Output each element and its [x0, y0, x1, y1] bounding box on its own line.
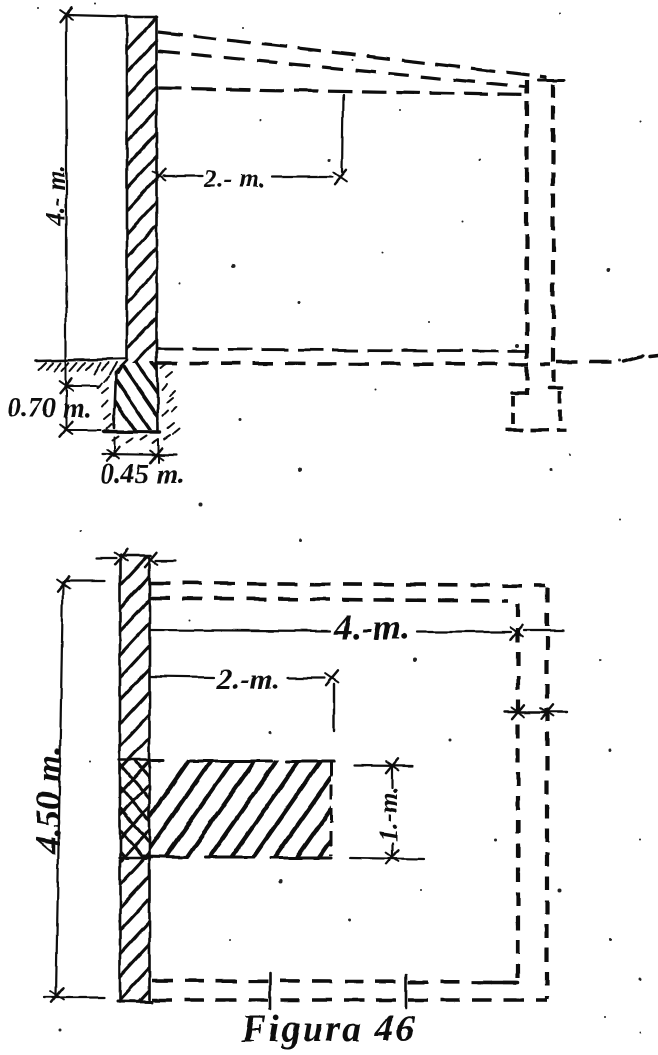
fig2 riser below 2m tick — [333, 684, 335, 731]
fig1 right footing left step — [512, 393, 527, 427]
fig1 0.45 drop lines — [114, 437, 158, 462]
fig1 right footing bottom — [506, 428, 566, 432]
fig1 tick right of 2m — [334, 170, 347, 184]
fig1 soil texture around foundation — [98, 363, 179, 443]
fig1 0.70 ticks and ties — [60, 362, 101, 436]
fig2 right outer dashed vertical — [545, 588, 549, 999]
fig2 wall cross hatch at slab — [117, 738, 152, 890]
fig2 1m vertical line — [391, 768, 393, 855]
fig2 inner vertical bottom ell — [492, 980, 518, 984]
fig1 0.45 ticks — [107, 447, 163, 462]
fig1 wall hatch — [124, 15, 159, 444]
fig1 label 2.- m. — [203, 164, 265, 193]
fig2 1m ties — [350, 766, 424, 860]
fig1 floor dashed line lower — [157, 363, 550, 364]
fig1 right footing right step — [549, 388, 562, 426]
fig2 wall top ticks — [97, 550, 176, 567]
fig1 ground dashes right of right wall — [556, 356, 658, 362]
fig1 2m dimension line right part — [272, 176, 332, 178]
fig2 slab top edge — [152, 759, 334, 763]
fig2 4m dimension line — [150, 630, 563, 632]
fig1 roof dashed line A — [158, 32, 547, 77]
fig2 bottom dashed line upper — [152, 981, 517, 982]
fig2 wall outline — [118, 555, 152, 1002]
fig2 tick line across right verticals — [504, 705, 567, 719]
fig1 2m dimension line left part — [163, 175, 203, 177]
svg-text:0.70 m.: 0.70 m. — [7, 393, 92, 424]
svg-text:4.50 m.: 4.50 m. — [28, 745, 68, 855]
fig2 2m dimension line — [150, 676, 325, 678]
fig2 top dashed line D1 — [150, 583, 545, 586]
svg-text:1.-m.: 1.-m. — [374, 787, 403, 842]
fig2 wall hatch — [117, 551, 152, 1049]
fig1 roof dashed line B — [158, 51, 527, 87]
fig2 label 2.-m. — [216, 663, 280, 696]
fig1 vertical dimension line 4m — [66, 14, 127, 359]
fig1 0.45 dimension line — [102, 454, 177, 455]
fig1 wall outline — [126, 17, 158, 364]
fig2 label 1.-m. — [374, 787, 403, 842]
svg-text:2.-m.: 2.-m. — [216, 663, 280, 696]
fig1 label 0.45 m. — [100, 459, 185, 490]
svg-text:4.- m.: 4.- m. — [41, 164, 70, 226]
fig1 right wall top tee — [539, 79, 565, 82]
fig2 top dashed line D2 — [150, 598, 508, 601]
fig2 right inner dashed vertical — [516, 604, 520, 982]
fig2 ticks of 4.50m — [51, 577, 70, 1002]
fig1 floor dashed line upper — [157, 349, 527, 351]
fig1 label 0.70 m. — [7, 393, 92, 424]
fig1 foundation hatch — [88, 362, 200, 432]
fig1 foundation outline — [104, 361, 160, 432]
svg-text:0.45 m.: 0.45 m. — [100, 459, 185, 490]
fig2 slab bottom edge — [143, 856, 331, 858]
fig1 riser line from ceiling to 2m dim — [342, 95, 343, 172]
fig1 ground line left — [35, 359, 126, 374]
fig2 label 4.50 m. — [28, 745, 68, 855]
fig1 right wall inner dashed line — [525, 80, 529, 395]
fig2 tick 2m — [326, 671, 339, 685]
fig2 slab right edge — [330, 762, 333, 856]
svg-text:4.-m.: 4.-m. — [333, 607, 410, 647]
fig1 right wall outer dashed line — [551, 84, 555, 382]
fig1 label 4.- m. — [41, 164, 70, 226]
caption Figura 46 — [240, 1008, 416, 1050]
fig2 slab hatch — [118, 756, 412, 862]
fig2 bottom dashed line lower — [152, 998, 547, 1002]
fig2 bottom tick marks — [270, 973, 406, 1009]
fig1 tick top of 4m dimension — [60, 8, 73, 22]
fig2 vertical dimension line 4.50m — [44, 581, 105, 997]
svg-text:Figura 46: Figura 46 — [240, 1008, 416, 1050]
fig2 tick 4m — [511, 625, 524, 639]
fig2 slab lines across wall — [119, 760, 150, 858]
fig1 tick left of 2m — [153, 169, 166, 183]
fig2 label 4.-m. — [333, 607, 410, 647]
fig1 ceiling dashed line C — [158, 88, 529, 95]
fig2 1m ticks — [386, 759, 399, 864]
svg-text:2.- m.: 2.- m. — [203, 164, 265, 193]
